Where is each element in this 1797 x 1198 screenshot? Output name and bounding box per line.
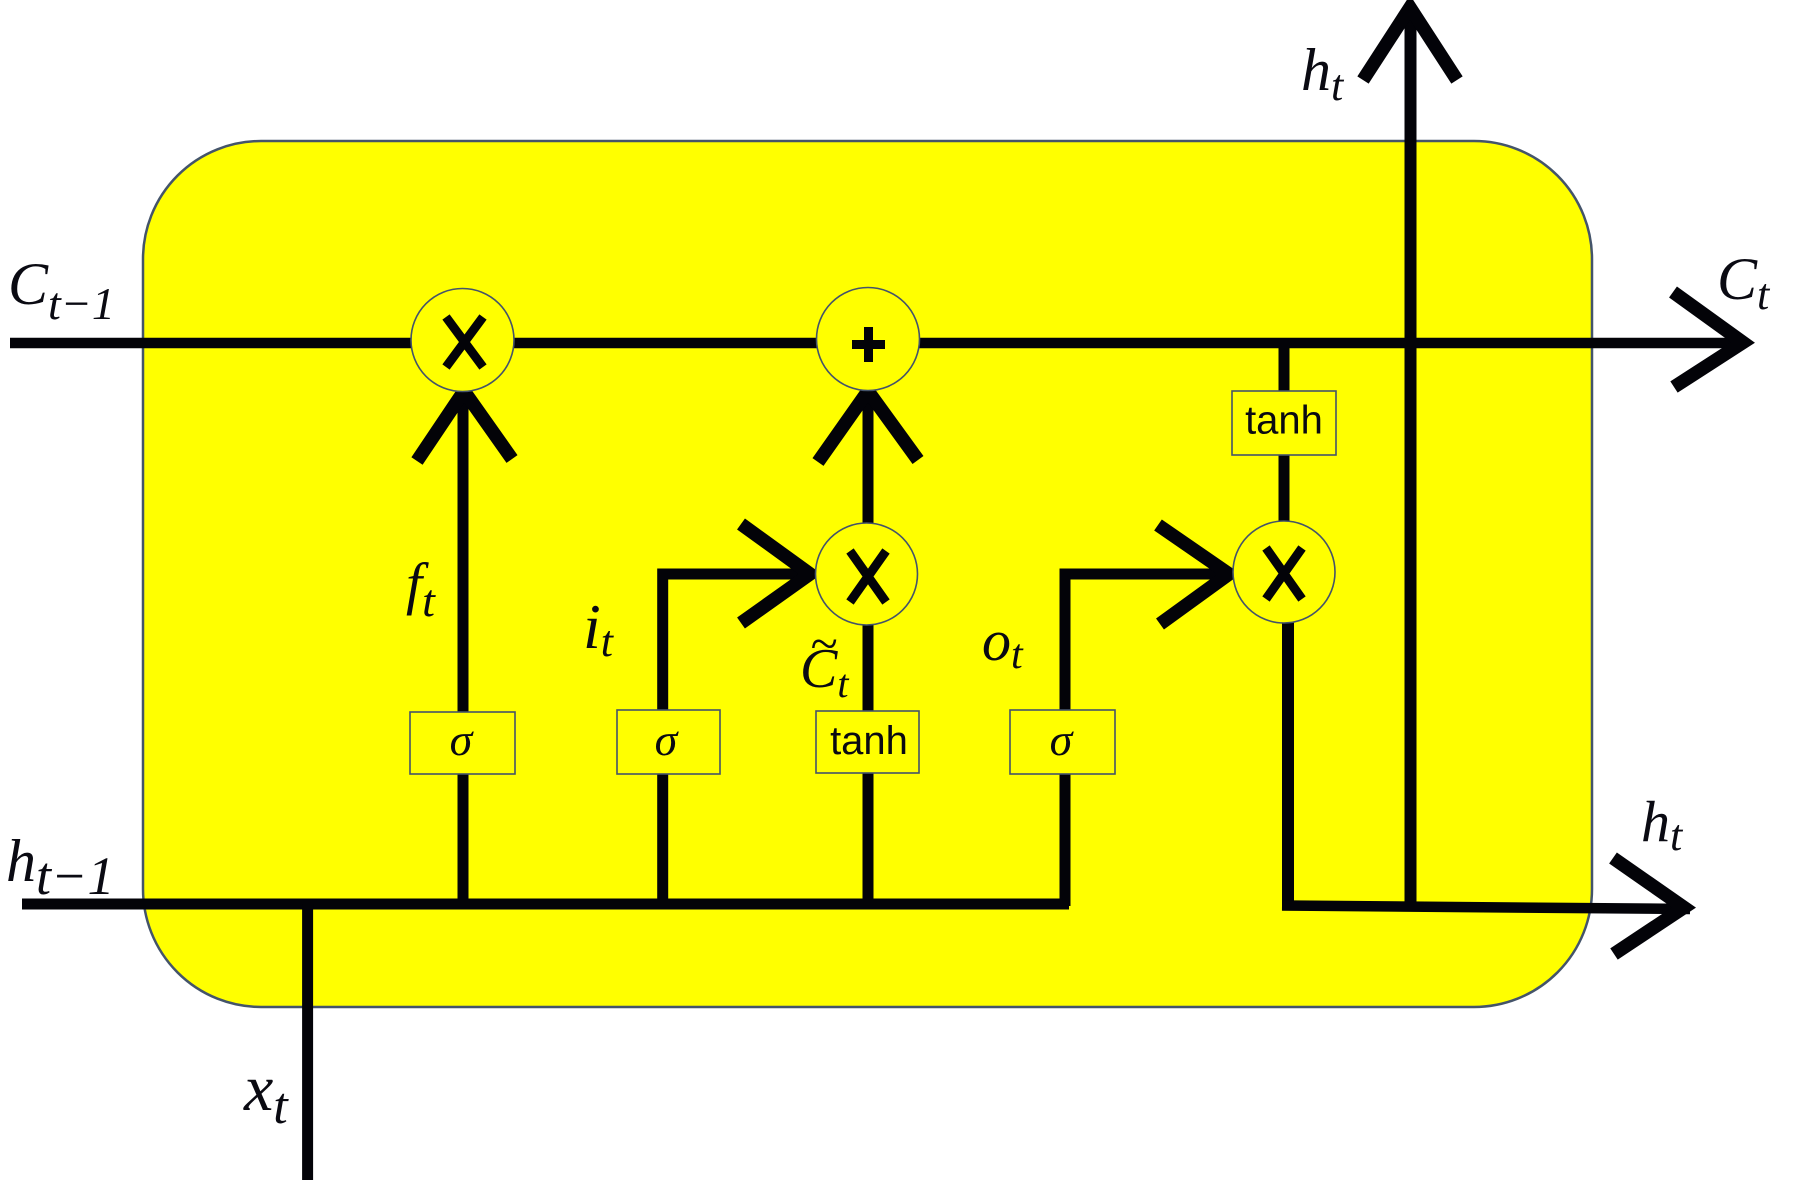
svg-text:tanh: tanh (830, 719, 908, 763)
arrowhead into plus (818, 391, 918, 462)
wire Ct-1 to Ct (top cell-state line) (10, 338, 1746, 349)
wire ht up shaft (1405, 7, 1417, 908)
wire it elbow (663, 574, 810, 906)
arrowhead ht (top) (1363, 8, 1457, 81)
wire Ct~ shaft (863, 391, 874, 906)
svg-text:σ: σ (1050, 714, 1075, 765)
arrowhead into X3 (1158, 525, 1229, 624)
box tanh (output branch) (1232, 391, 1336, 455)
arrowhead Ct (right) (1673, 292, 1743, 387)
LSTM cell body (143, 141, 1592, 1007)
wire ht-1 bottom line (22, 899, 1069, 910)
wire tanh branch vertical (1279, 345, 1290, 396)
node plus circle (cell state add) (817, 288, 920, 391)
node X1 circle (forget gate multiply) (411, 289, 514, 392)
wire xt input (302, 904, 313, 1180)
X3 glyph (1266, 548, 1302, 599)
X1 glyph (446, 317, 483, 367)
svg-text:σ: σ (655, 714, 680, 765)
X2 glyph (850, 551, 886, 602)
plus glyph (852, 327, 885, 362)
arrowhead into X2 (741, 524, 810, 623)
box sigma 1 (forget gate) (410, 712, 515, 774)
svg-text:~: ~ (810, 615, 837, 671)
wire ot elbow (1065, 574, 1229, 906)
box sigma 2 (input gate) (617, 710, 720, 774)
arrowhead into X1 (417, 391, 512, 461)
node X2 circle (input gate multiply) (816, 523, 918, 625)
box tanh (candidate) (816, 711, 919, 773)
wire ft shaft (458, 391, 469, 906)
svg-text:tanh: tanh (1245, 399, 1323, 443)
svg-text:σ: σ (450, 714, 475, 765)
box sigma 3 (output gate) (1010, 710, 1115, 774)
wire ht output bottom segment (1282, 906, 1690, 910)
arrowhead ht (bottom right) (1613, 858, 1684, 954)
node X3 circle (output gate multiply) (1233, 521, 1335, 623)
